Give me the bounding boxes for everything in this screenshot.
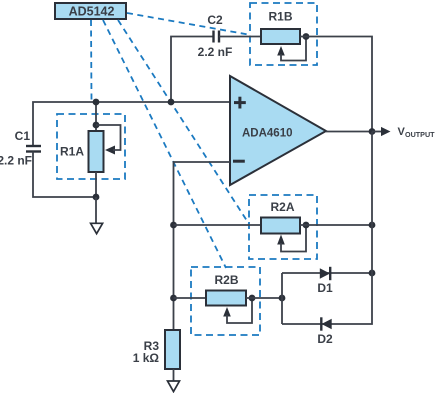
wire R2B to diode pair xyxy=(246,297,282,299)
label VOUTPUT xyxy=(398,126,435,139)
wire noninverting input net xyxy=(33,102,230,146)
digital pot controller U2 AD5142 xyxy=(55,3,126,19)
junction node + input / C2 branch xyxy=(168,99,175,106)
wire op-amp output to bus xyxy=(326,131,372,133)
junction node bus / D1 xyxy=(369,270,376,277)
wire inverting input net xyxy=(174,162,231,330)
output arrow xyxy=(372,127,391,136)
R2B wiper arrow and loop xyxy=(223,298,252,323)
svg-text:D1: D1 xyxy=(317,281,333,295)
potentiometer R1B body xyxy=(261,29,300,44)
op-amp U1 ADA4610 xyxy=(230,76,326,185)
junction node output xyxy=(369,128,376,135)
wire C1 bottom lead xyxy=(33,152,96,198)
svg-text:C1: C1 xyxy=(15,129,31,143)
R1A wiper arrow and loop xyxy=(96,125,121,155)
svg-text:R1A: R1A xyxy=(60,145,84,159)
ground symbol 1 xyxy=(91,223,103,233)
svg-text:ADA4610: ADA4610 xyxy=(242,128,293,140)
wire R1A bottom lead xyxy=(95,172,97,197)
wire to ground 1 xyxy=(95,197,97,223)
capacitor C1 plates xyxy=(26,145,41,147)
wire R2A to bus xyxy=(300,224,372,226)
svg-text:D2: D2 xyxy=(317,332,333,346)
svg-text:R2A: R2A xyxy=(270,200,294,214)
junction node R2A wiper tie xyxy=(303,222,310,229)
diode D2 xyxy=(321,317,331,330)
junction node diode branch split xyxy=(279,295,286,302)
junction node bus / R2A xyxy=(369,222,376,229)
wire R2A left lead xyxy=(174,224,262,226)
svg-text:OUTPUT: OUTPUT xyxy=(405,130,435,139)
wire D2 branch xyxy=(282,273,372,324)
junction node R1A wiper tie xyxy=(93,122,100,129)
wire D1 branch xyxy=(282,272,372,274)
ground symbol 2 xyxy=(168,381,180,392)
dashed control line AD5142 to R1B xyxy=(127,13,251,35)
R2A wiper arrow and loop xyxy=(277,225,306,252)
svg-text:2.2 nF: 2.2 nF xyxy=(0,154,32,168)
wire R1A top branch xyxy=(95,102,97,131)
svg-text:R1B: R1B xyxy=(268,10,292,24)
svg-text:R2B: R2B xyxy=(214,273,238,287)
R1B wiper arrow and loop xyxy=(277,37,306,61)
wire diode loop left rail xyxy=(281,273,283,324)
dashed box around R2B xyxy=(191,267,260,335)
dashed box around R1A xyxy=(57,114,125,179)
junction node inverting / R2A branch xyxy=(170,222,177,229)
capacitor C2 plates xyxy=(212,31,214,43)
junction node at + net / R1A xyxy=(93,99,100,106)
diode D1 xyxy=(320,267,330,280)
dashed box around R1B xyxy=(250,3,317,65)
potentiometer R1A body xyxy=(89,131,104,172)
wire R1B to feedback bus xyxy=(300,37,372,133)
resistor R3 body xyxy=(165,330,180,369)
junction node inverting rail / R2B branch xyxy=(170,295,177,302)
svg-text:C2: C2 xyxy=(207,13,223,27)
junction node bottom left xyxy=(93,194,100,201)
potentiometer R2B body xyxy=(206,291,246,306)
svg-text:1 kΩ: 1 kΩ xyxy=(133,351,160,365)
svg-text:2.2 nF: 2.2 nF xyxy=(198,45,233,59)
dashed control line AD5142 to R1A xyxy=(90,20,93,101)
wire R2B left lead xyxy=(174,297,207,299)
wire C2 feedback net top xyxy=(171,37,213,103)
junction node R2B wiper tie xyxy=(249,295,256,302)
wire bus middle segment xyxy=(371,132,373,226)
wire R3 bottom lead xyxy=(173,369,175,381)
dashed control line AD5142 to R2B xyxy=(103,20,226,268)
potentiometer R2A body xyxy=(261,218,300,234)
wire C2 to R1B xyxy=(219,36,261,38)
dashed control line AD5142 to R2A xyxy=(118,20,249,224)
junction node R1B wiper tie xyxy=(303,33,310,40)
dashed box around R2A xyxy=(249,195,317,259)
svg-text:AD5142: AD5142 xyxy=(69,5,115,19)
